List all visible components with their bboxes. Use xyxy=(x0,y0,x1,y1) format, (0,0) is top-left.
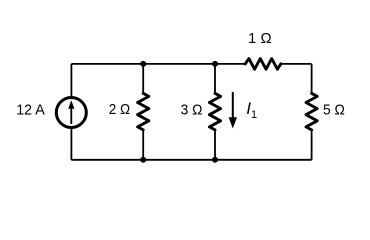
svg-text:3 Ω: 3 Ω xyxy=(181,101,203,118)
svg-text:I1: I1 xyxy=(246,99,257,121)
resistor R4 5-ohm (vertical zigzag) xyxy=(306,93,317,130)
svg-text:5 Ω: 5 Ω xyxy=(323,101,345,118)
wire top rail left segment (source to 1-ohm) xyxy=(71,63,245,65)
wire bottom rail xyxy=(71,159,311,161)
wire 3-ohm branch lower xyxy=(214,130,216,160)
wire 5-ohm branch lower xyxy=(311,130,313,160)
wire 3-ohm branch upper xyxy=(214,64,216,93)
node junction top of 2-ohm xyxy=(140,61,146,67)
svg-text:12 A: 12 A xyxy=(16,101,45,118)
resistor R2 3-ohm (vertical zigzag) xyxy=(209,93,220,130)
node junction top of 3-ohm xyxy=(212,61,218,67)
wire 5-ohm branch upper xyxy=(311,64,313,93)
current arrow I1 (points down, beside 3-ohm) xyxy=(229,92,237,129)
wire top rail right segment (1-ohm to top-right corner) xyxy=(281,63,312,65)
wire left branch lower xyxy=(70,127,72,160)
current source CS1 arrow (points up) xyxy=(68,100,74,124)
node junction bottom of 2-ohm xyxy=(140,157,146,163)
current source CS1 12 A (circle) xyxy=(56,98,86,128)
resistor R1 2-ohm (vertical zigzag) xyxy=(138,93,149,130)
svg-text:2 Ω: 2 Ω xyxy=(109,101,130,118)
svg-text:1 Ω: 1 Ω xyxy=(248,30,272,47)
resistor R3 1-ohm (horizontal zigzag on top rail) xyxy=(245,59,281,70)
wire left branch upper xyxy=(70,64,72,98)
wire 2-ohm branch upper xyxy=(142,64,144,93)
wire 2-ohm branch lower xyxy=(142,130,144,160)
node junction bottom of 3-ohm xyxy=(212,157,218,163)
